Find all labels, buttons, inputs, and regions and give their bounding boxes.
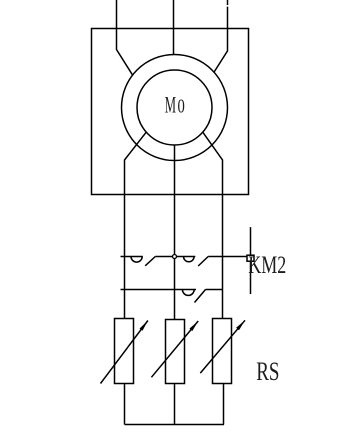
wire rotor star-point bus (bottom horizontal) — [125, 424, 225, 426]
resistor RS2 adjustment arrow shaft — [151, 321, 198, 377]
contact KM2 pole 2 arc — [184, 257, 195, 262]
node junction on middle rotor lead — [173, 255, 177, 259]
wire resistor RS3 bottom lead — [223, 384, 225, 425]
wire KM2 shorting bar upper (horizontal line y=256.5) — [121, 256, 247, 258]
motor M0 enclosure box — [92, 29, 249, 195]
KM2 actuator linkage square — [247, 255, 254, 261]
resistor RS3 adjustment arrow shaft — [200, 320, 245, 373]
resistor RS2 arrow head — [189, 321, 198, 331]
wire rotor lead right (from inner circle down-right then vertical to resistor RS3) — [203, 132, 223, 319]
svg-text:M: M — [165, 92, 176, 117]
resistor RS3 arrow head — [236, 320, 245, 330]
wire stator lead L1 (top left vertical + slant into stator circle) — [117, 0, 133, 75]
resistor RS2 body — [166, 320, 185, 384]
wire rotor lead left (from inner circle down-left then vertical to resistor RS1) — [125, 132, 147, 319]
wire stator lead L2 (top middle vertical to stator circle top) — [173, 0, 175, 55]
motor M0 rotor inner circle — [137, 70, 212, 145]
motor M0 stator outer circle — [122, 55, 228, 161]
wire resistor RS2 bottom lead — [174, 384, 176, 425]
resistor RS1 body — [115, 319, 134, 384]
contact KM2 pole 3 arc — [182, 290, 194, 296]
wire resistor RS1 bottom lead — [124, 384, 126, 425]
contact KM2 pole 2 moving blade — [198, 257, 208, 267]
svg-text:KM2: KM2 — [248, 250, 286, 279]
resistor RS3 body — [213, 319, 232, 384]
KM2 actuator axis line upper segment — [250, 227, 252, 255]
wire KM2 shorting bar lower (horizontal line y=289.5) — [121, 289, 223, 291]
resistor RS1 arrow head — [140, 321, 148, 331]
svg-text:0: 0 — [178, 96, 185, 118]
wire rotor lead middle (from inner circle bottom vertical to resistor RS2) — [174, 145, 176, 320]
resistor RS1 adjustment arrow shaft — [101, 321, 148, 384]
contact KM2 pole 1 arc — [131, 257, 142, 263]
contact KM2 pole 3 moving blade — [195, 290, 206, 303]
svg-text:RS: RS — [256, 356, 279, 386]
wire stator lead L3 (top right vertical, small gap near top, slant into stator circle) — [214, 0, 227, 72]
KM2 actuator axis line lower segment — [250, 261, 252, 294]
contact KM2 pole 1 moving blade — [145, 257, 155, 266]
